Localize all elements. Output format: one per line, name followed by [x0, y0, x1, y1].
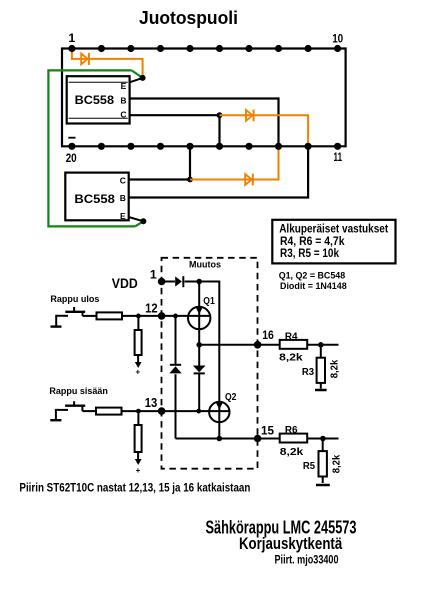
svg-text:8,2k: 8,2k — [330, 359, 341, 378]
svg-text:Muutos: Muutos — [189, 260, 221, 270]
wire: lower E pin diagonal — [129, 217, 144, 221]
node: lower C junction — [187, 177, 193, 183]
transistor BC558 (lower box) — [65, 173, 128, 221]
svg-text:13: 13 — [145, 396, 158, 410]
svg-text:Korjauskytkentä: Korjauskytkentä — [239, 534, 343, 553]
junction: R3 tap — [318, 342, 324, 348]
node pin 1 — [158, 278, 166, 286]
svg-text:8,2k: 8,2k — [280, 447, 304, 458]
junction: Q1 emitter tap — [196, 342, 202, 348]
svg-text:B: B — [120, 96, 126, 106]
node: upper E junction — [140, 75, 146, 81]
junction: D3 tap — [196, 409, 201, 414]
resistor series (lower switch) — [96, 408, 122, 415]
svg-text:8,2k: 8,2k — [332, 454, 343, 473]
pin row bottom (pins 20-11) — [68, 143, 341, 150]
node 16 — [254, 341, 262, 349]
svg-text:BC558: BC558 — [75, 93, 115, 107]
node 15 — [254, 435, 262, 443]
junction: pull-up tap — [136, 314, 141, 319]
transistor BC558 (upper box) — [67, 76, 130, 123]
svg-text:Rappu ulos: Rappu ulos — [50, 294, 99, 304]
wire: node 13 line (base of Q2) — [122, 410, 230, 412]
diode D2 (node12 to node15 line) — [169, 316, 181, 439]
wire: node 16 line — [199, 344, 280, 346]
svg-text:8,2k: 8,2k — [279, 352, 303, 363]
svg-text:Juotospuoli: Juotospuoli — [139, 8, 238, 28]
svg-text:20: 20 — [66, 151, 77, 165]
svg-text:R3: R3 — [302, 366, 314, 378]
resistor pull-up 12 — [135, 316, 142, 377]
svg-text:C: C — [120, 109, 126, 119]
dashed box Muutos — [162, 258, 258, 469]
wire: R6 out — [307, 438, 338, 440]
svg-text:E: E — [121, 81, 127, 91]
svg-text:15: 15 — [261, 424, 274, 438]
svg-text:+: + — [136, 466, 141, 475]
node 12 — [158, 312, 166, 320]
transistor Q2 — [209, 391, 236, 439]
svg-text:Q1, Q2 = BC548: Q1, Q2 = BC548 — [279, 271, 346, 282]
node 13 — [158, 407, 166, 415]
wire: R4 out — [307, 344, 338, 346]
info box: original resistors — [272, 220, 395, 264]
diode lower (orange) to pin 13 — [190, 146, 279, 185]
svg-text:+: + — [135, 368, 140, 377]
node: Q1 collector junction — [196, 279, 202, 285]
resistor R6 — [280, 434, 308, 443]
svg-text:R5: R5 — [303, 460, 315, 472]
svg-text:Piirt. mjo33400: Piirt. mjo33400 — [275, 552, 339, 566]
wire: junction to pin 15 — [218, 115, 220, 146]
svg-text:Piirin ST62T10C nastat 12,13,: Piirin ST62T10C nastat 12,13, 15 ja 16 k… — [19, 481, 250, 495]
wire: lower B to pin 12 — [129, 146, 308, 197]
switch S1 Rappu ulos — [51, 307, 97, 327]
resistor R5 — [319, 439, 327, 484]
diode D3 (Q1 emitter to node13 line) — [193, 345, 206, 411]
junction: pull-up tap 13 — [136, 409, 141, 414]
svg-text:R4: R4 — [285, 330, 298, 342]
resistor R4 — [280, 340, 308, 349]
svg-text:R3, R5 = 10k: R3, R5 = 10k — [280, 247, 339, 260]
svg-text:10: 10 — [332, 31, 343, 45]
diode at pin 1 (orange) — [72, 49, 143, 78]
minus mark at pin 20 — [68, 137, 75, 139]
wire: junction to pin 16 — [189, 146, 191, 179]
resistor pull-up 13 — [135, 411, 142, 475]
svg-text:C: C — [120, 176, 126, 186]
junction: Q2 emitter tap — [217, 436, 223, 442]
svg-text:1: 1 — [150, 267, 157, 281]
svg-text:Diodit = 1N4148: Diodit = 1N4148 — [280, 281, 347, 292]
svg-text:16: 16 — [262, 328, 274, 342]
svg-text:Q1: Q1 — [203, 295, 215, 307]
wire: upper C — [130, 114, 220, 116]
svg-text:11: 11 — [334, 150, 343, 164]
svg-text:BC558: BC558 — [74, 192, 115, 206]
resistor R3 — [317, 345, 325, 389]
svg-text:B: B — [120, 193, 126, 203]
wire: E-E link (green) — [48, 70, 143, 226]
wire: node 12 line (base of Q1) — [122, 315, 210, 317]
wire: upper E pin diagonal — [130, 78, 143, 82]
diode D1 (series from pin 1) — [175, 276, 183, 287]
ground (R3) — [315, 389, 327, 392]
svg-text:1: 1 — [68, 31, 75, 45]
wire: node 15 line — [176, 438, 280, 440]
node: lower E junction — [140, 218, 146, 224]
svg-text:Alkuperäiset vastukset: Alkuperäiset vastukset — [279, 223, 388, 236]
junction: R5 tap — [320, 436, 326, 442]
switch S2 Rappu sisään — [50, 401, 96, 420]
IC solder-side outline — [62, 49, 346, 147]
transistor Q1 — [188, 282, 215, 345]
svg-text:Rappu sisään: Rappu sisään — [49, 386, 108, 396]
wire: upper B to pin 13 — [130, 99, 279, 147]
wire: VDD feed — [162, 281, 175, 283]
wire: VDD rail to Q2 collector — [185, 282, 220, 403]
svg-text:Q2: Q2 — [225, 391, 237, 403]
svg-text:E: E — [120, 211, 126, 221]
wire: lower C — [129, 178, 190, 180]
diode upper (orange) to pin 12 — [220, 110, 309, 147]
pin row top (pins 1-10) — [68, 45, 341, 52]
resistor series (upper switch) — [97, 312, 123, 319]
svg-text:VDD: VDD — [112, 275, 138, 291]
svg-text:R6: R6 — [285, 424, 298, 436]
junction: diode tap — [173, 314, 178, 319]
node: upper C junction — [217, 112, 223, 118]
ground (R5) — [316, 484, 330, 487]
svg-text:12: 12 — [145, 302, 158, 316]
